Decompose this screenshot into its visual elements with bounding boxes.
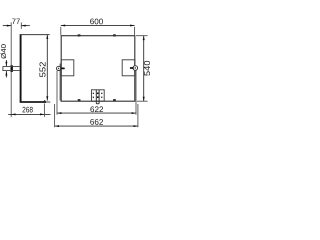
dim 600 line bbox=[61, 24, 135, 26]
dim 600 right arrow bbox=[130, 24, 134, 26]
dim 600 extension right bbox=[134, 27, 136, 35]
dim 77 extension tick right bbox=[20, 22, 22, 28]
dim 552 top arrow bbox=[46, 35, 48, 39]
bottom plate extension to 552 dim bbox=[46, 101, 50, 103]
dim 622 right arrow bbox=[132, 112, 136, 114]
right bolt center dot bbox=[135, 67, 136, 68]
right bolt circle bbox=[133, 66, 138, 71]
O40 tube collar bbox=[11, 65, 13, 72]
O40 tube top line bbox=[3, 66, 20, 68]
dim O40 lower arrow bbox=[5, 71, 7, 77]
top edge fixing mark right bbox=[113, 34, 116, 36]
top edge fixing mark left bbox=[78, 34, 81, 36]
dim 77 line right part with inward arrow bbox=[21, 25, 30, 27]
svg-text:Ø40: Ø40 bbox=[1, 44, 8, 59]
drain dots bbox=[93, 93, 94, 94]
dim 268 left arrow bbox=[11, 113, 15, 115]
dim 77 line left part with inward arrow bbox=[3, 25, 11, 27]
bottom plate (thick horizontal) bbox=[20, 101, 46, 103]
left bolt tick bbox=[61, 68, 65, 70]
top flange edge bbox=[20, 34, 50, 36]
bottom edge fixing mark left bbox=[78, 99, 81, 101]
drain middle slot bbox=[96, 90, 99, 104]
dim 540 extension bottom bbox=[137, 100, 148, 102]
dim 268 extension tick right bbox=[43, 103, 45, 117]
dim 552 bottom arrow bbox=[46, 96, 48, 100]
basin outline box bbox=[61, 36, 135, 102]
drain box outer bbox=[92, 90, 105, 101]
bottom lip bump bbox=[44, 100, 45, 102]
dim 540 bottom arrow bbox=[143, 97, 145, 101]
dim 600 extension left bbox=[60, 27, 62, 35]
svg-text:540: 540 bbox=[143, 60, 150, 76]
dim O40 upper arrow bbox=[5, 60, 7, 66]
wall plate (thick vertical bar) bbox=[20, 34, 22, 102]
dim 662 left arrow bbox=[55, 125, 59, 127]
svg-text:622: 622 bbox=[90, 105, 104, 114]
right bracket rectangle bbox=[122, 60, 135, 76]
dim 268 line bbox=[8, 113, 50, 115]
dim 662 extension left bbox=[54, 104, 56, 127]
dim 662 line bbox=[55, 125, 138, 127]
left bolt circle bbox=[57, 66, 61, 70]
dim 540 line bbox=[143, 36, 145, 102]
dim 622 right extension (bolt drop line) bbox=[135, 70, 137, 115]
dim 600 left arrow bbox=[61, 24, 65, 26]
dim 268 right arrow bbox=[40, 113, 44, 115]
svg-text:268: 268 bbox=[22, 105, 33, 114]
svg-text:600: 600 bbox=[90, 17, 104, 26]
O40 tube bottom line bbox=[3, 70, 20, 72]
dim 622 left extension (bolt tangent) bbox=[56, 71, 58, 115]
left bolt drop line bbox=[59, 64, 61, 101]
dim 622 line bbox=[57, 112, 136, 114]
dim 540 extension top bbox=[136, 35, 148, 37]
O40 tube end cap bbox=[2, 66, 4, 71]
dim 540 top arrow bbox=[143, 36, 145, 40]
left bolt center dot bbox=[58, 68, 59, 69]
dim 662 extension right bbox=[137, 104, 139, 127]
svg-text:77: 77 bbox=[12, 17, 20, 26]
svg-text:662: 662 bbox=[90, 118, 104, 127]
svg-text:552: 552 bbox=[38, 61, 47, 77]
dim 552 line bbox=[46, 35, 48, 101]
dim 662 right arrow bbox=[134, 125, 138, 127]
left bracket rectangle bbox=[61, 60, 74, 76]
bottom edge fixing mark right bbox=[113, 99, 116, 101]
right bolt tick bbox=[130, 67, 134, 69]
dim 622 left arrow bbox=[57, 112, 61, 114]
extension line A (pipe flange face, shared by dims 77 and 268) bbox=[10, 22, 12, 117]
